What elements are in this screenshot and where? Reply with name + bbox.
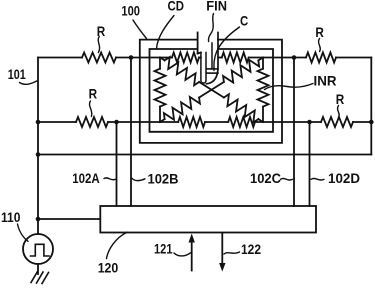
svg-text:R: R — [336, 91, 345, 107]
svg-text:R: R — [89, 85, 98, 101]
svg-text:CD: CD — [168, 0, 185, 14]
svg-text:120: 120 — [98, 260, 119, 276]
svg-text:102A: 102A — [72, 170, 100, 186]
svg-text:110: 110 — [1, 209, 21, 225]
svg-text:INR: INR — [314, 73, 337, 89]
svg-text:101: 101 — [8, 66, 26, 82]
svg-text:121: 121 — [154, 241, 173, 257]
svg-text:102C: 102C — [250, 170, 281, 186]
svg-text:122: 122 — [241, 241, 261, 257]
svg-text:FIN: FIN — [206, 0, 227, 14]
svg-text:102B: 102B — [148, 170, 179, 186]
svg-text:R: R — [97, 23, 106, 39]
svg-text:R: R — [315, 24, 324, 40]
svg-text:100: 100 — [121, 3, 140, 19]
svg-text:C: C — [240, 12, 248, 28]
svg-text:102D: 102D — [328, 170, 360, 186]
